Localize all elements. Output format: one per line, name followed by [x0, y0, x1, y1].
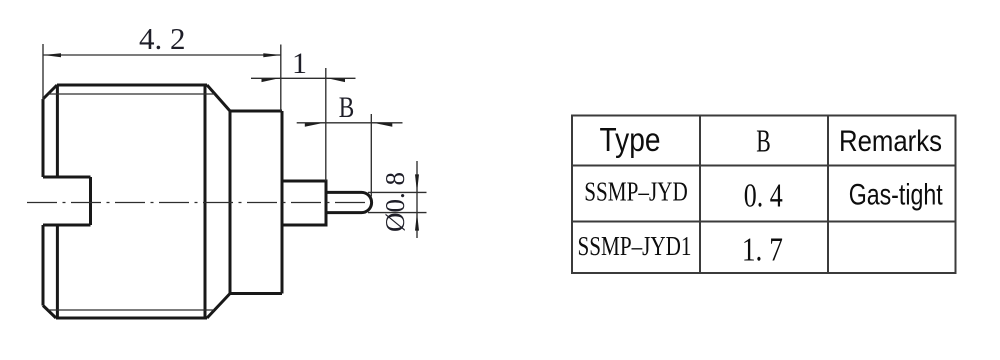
svg-text:Gas-tight: Gas-tight	[849, 179, 944, 212]
svg-text:B: B	[756, 123, 771, 159]
svg-text:SSMP–JYD: SSMP–JYD	[584, 177, 688, 207]
svg-text:0. 4: 0. 4	[744, 177, 783, 214]
svg-text:1. 7: 1. 7	[742, 232, 783, 269]
svg-text:Remarks: Remarks	[839, 125, 942, 158]
svg-text:B: B	[339, 91, 355, 124]
svg-text:Type: Type	[600, 121, 661, 158]
svg-text:4. 2: 4. 2	[139, 21, 186, 56]
svg-text:Ø0. 8: Ø0. 8	[380, 172, 410, 232]
svg-text:1: 1	[292, 47, 307, 80]
svg-text:SSMP–JYD1: SSMP–JYD1	[578, 231, 692, 261]
